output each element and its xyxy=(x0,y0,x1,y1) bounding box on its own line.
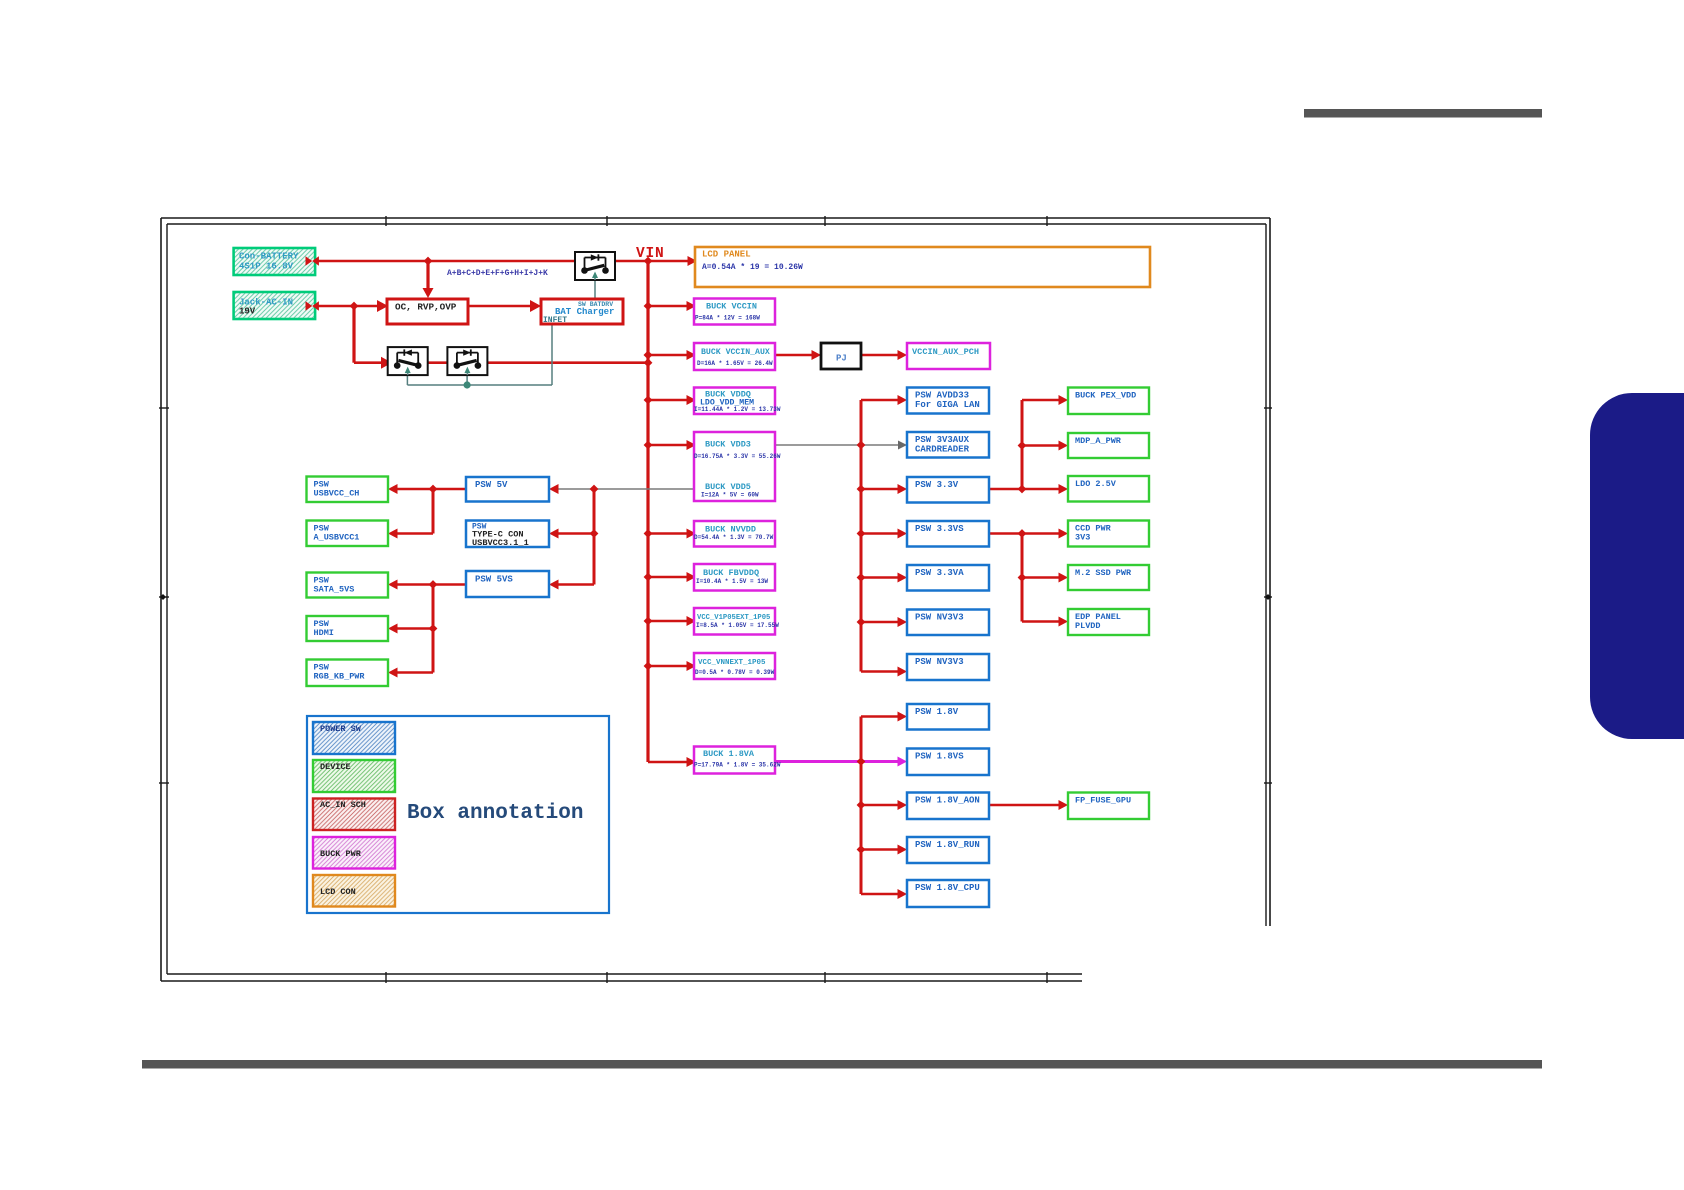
svg-text:PSW 1.8V_AON: PSW 1.8V_AON xyxy=(915,796,980,806)
svg-text:VIN: VIN xyxy=(636,246,665,262)
svg-text:D=16.75A * 3.3V = 55.26W: D=16.75A * 3.3V = 55.26W xyxy=(694,453,781,460)
svg-text:PSW 1.8V_CPU: PSW 1.8V_CPU xyxy=(915,883,980,893)
svg-text:PSW 5V: PSW 5V xyxy=(475,480,508,490)
svg-text:USBVCC3.1_1: USBVCC3.1_1 xyxy=(472,538,529,548)
svg-text:CARDREADER: CARDREADER xyxy=(915,445,970,455)
svg-text:OC, RVP,OVP: OC, RVP,OVP xyxy=(395,302,457,313)
svg-text:PSW 3.3VA: PSW 3.3VA xyxy=(915,568,964,578)
svg-text:PSW 3.3V: PSW 3.3V xyxy=(915,480,959,490)
svg-text:I=8.5A * 1.05V = 17.55W: I=8.5A * 1.05V = 17.55W xyxy=(696,622,779,629)
svg-text:BUCK 1.8VA: BUCK 1.8VA xyxy=(703,749,755,759)
svg-text:M.2 SSD PWR: M.2 SSD PWR xyxy=(1075,568,1132,578)
svg-text:For GIGA LAN: For GIGA LAN xyxy=(915,400,980,410)
svg-text:I=11.44A * 1.2V = 13.73W: I=11.44A * 1.2V = 13.73W xyxy=(694,406,781,413)
svg-text:PSW 1.8V: PSW 1.8V xyxy=(915,707,959,717)
svg-text:PSW 5VS: PSW 5VS xyxy=(475,575,513,585)
svg-text:DEVICE: DEVICE xyxy=(320,762,351,772)
svg-text:P=17.79A * 1.8V = 35.62W: P=17.79A * 1.8V = 35.62W xyxy=(694,762,781,769)
svg-text:VCC_VNNEXT_1P05: VCC_VNNEXT_1P05 xyxy=(698,659,766,667)
svg-text:D=0.5A * 0.78V = 0.39W: D=0.5A * 0.78V = 0.39W xyxy=(695,669,775,676)
svg-text:A+B+C+D+E+F+G+H+I+J+K: A+B+C+D+E+F+G+H+I+J+K xyxy=(447,269,548,278)
svg-text:PSW NV3V3: PSW NV3V3 xyxy=(915,657,964,667)
svg-text:A=0.54A * 19 = 10.26W: A=0.54A * 19 = 10.26W xyxy=(702,263,803,272)
svg-text:PLVDD: PLVDD xyxy=(1075,621,1101,631)
svg-text:BUCK VDD5: BUCK VDD5 xyxy=(705,482,751,492)
svg-text:P=84A * 12V = 168W: P=84A * 12V = 168W xyxy=(695,315,760,322)
svg-text:POWER SW: POWER SW xyxy=(320,724,362,734)
svg-text:MDP_A_PWR: MDP_A_PWR xyxy=(1075,436,1122,446)
svg-text:D=16A * 1.65V = 26.4W: D=16A * 1.65V = 26.4W xyxy=(697,360,773,367)
svg-text:USBVCC_CH: USBVCC_CH xyxy=(314,489,360,499)
svg-text:A_USBVCC1: A_USBVCC1 xyxy=(314,533,360,543)
svg-text:Con-BATTERY: Con-BATTERY xyxy=(239,252,299,262)
svg-text:HDMI: HDMI xyxy=(314,628,334,638)
svg-text:D=54.4A * 1.3V = 70.7W: D=54.4A * 1.3V = 70.7W xyxy=(694,534,774,541)
svg-text:BUCK VCCIN_AUX: BUCK VCCIN_AUX xyxy=(701,348,770,357)
svg-text:PSW 1.8V_RUN: PSW 1.8V_RUN xyxy=(915,840,980,850)
svg-text:PJ: PJ xyxy=(836,354,847,364)
svg-text:SATA_5VS: SATA_5VS xyxy=(314,585,355,595)
svg-text:LCD PANEL: LCD PANEL xyxy=(702,250,751,260)
svg-text:INFET: INFET xyxy=(543,316,567,325)
svg-text:BUCK FBVDDQ: BUCK FBVDDQ xyxy=(703,568,759,578)
svg-text:19V: 19V xyxy=(239,307,256,317)
svg-text:LCD CON: LCD CON xyxy=(320,887,356,897)
svg-text:I=12A * 5V = 60W: I=12A * 5V = 60W xyxy=(701,492,759,499)
svg-text:3V3: 3V3 xyxy=(1075,533,1090,543)
svg-text:BUCK VDD3: BUCK VDD3 xyxy=(705,440,751,450)
svg-text:PSW AVDD33: PSW AVDD33 xyxy=(915,391,969,401)
svg-text:PSW NV3V3: PSW NV3V3 xyxy=(915,613,964,623)
svg-text:LDO 2.5V: LDO 2.5V xyxy=(1075,479,1117,489)
svg-text:AC_IN SCH: AC_IN SCH xyxy=(320,800,366,810)
svg-text:PSW 1.8VS: PSW 1.8VS xyxy=(915,752,964,762)
svg-text:VCCIN_AUX_PCH: VCCIN_AUX_PCH xyxy=(912,347,979,357)
svg-text:PSW 3.3VS: PSW 3.3VS xyxy=(915,524,964,534)
svg-text:BUCK NVVDD: BUCK NVVDD xyxy=(705,525,756,535)
svg-text:FP_FUSE_GPU: FP_FUSE_GPU xyxy=(1075,796,1131,806)
svg-text:Box annotation: Box annotation xyxy=(407,802,583,825)
svg-text:VCC_V1P05EXT_1P05: VCC_V1P05EXT_1P05 xyxy=(697,614,770,622)
svg-text:BUCK PWR: BUCK PWR xyxy=(320,849,362,859)
svg-text:RGB_KB_PWR: RGB_KB_PWR xyxy=(314,672,366,682)
svg-text:4S1P 16.8V: 4S1P 16.8V xyxy=(239,262,294,272)
svg-text:PSW 3V3AUX: PSW 3V3AUX xyxy=(915,435,970,445)
svg-text:I=10.4A * 1.5V = 13W: I=10.4A * 1.5V = 13W xyxy=(696,578,768,585)
svg-text:BUCK VCCIN: BUCK VCCIN xyxy=(706,302,757,312)
svg-text:BUCK PEX_VDD: BUCK PEX_VDD xyxy=(1075,391,1136,401)
